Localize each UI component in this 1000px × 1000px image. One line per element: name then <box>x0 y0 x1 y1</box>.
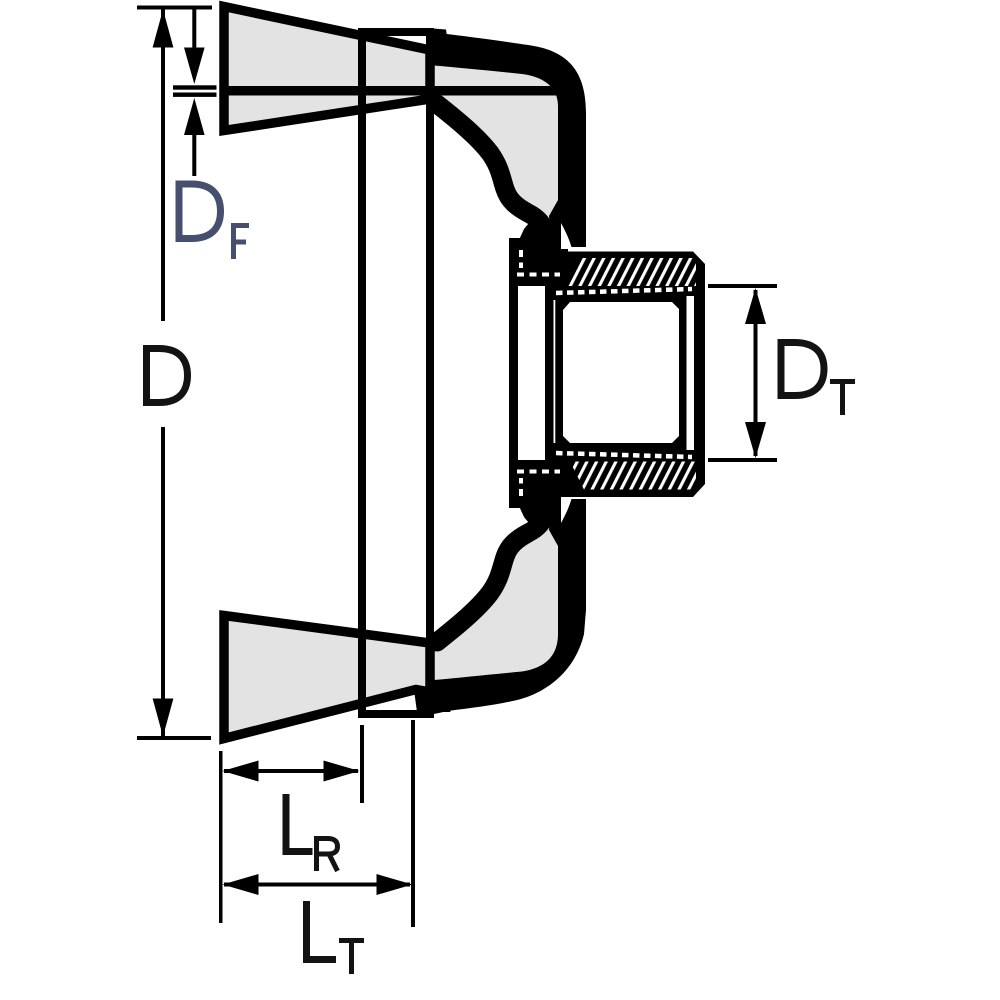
hidden-line dashes bottom block <box>519 478 523 496</box>
wire tuft trapezoid top <box>224 7 430 131</box>
hub back wall bar <box>509 238 518 508</box>
rim bottom edge <box>358 710 434 718</box>
rim cap step top <box>433 29 448 41</box>
cup top wall band <box>434 31 586 247</box>
cup body halves (mirror group: top half drawn, bottom is reflection about y=373) <box>426 44 564 258</box>
dimension D <box>137 6 212 741</box>
hidden-line dashes top block <box>519 250 523 268</box>
cup bottom-left corner piece <box>414 690 433 712</box>
rim cap step bottom <box>433 702 451 712</box>
cup bottom wall band (larger outer corner) <box>434 499 586 714</box>
label DF <box>179 184 221 239</box>
wire tuft trapezoid bottom <box>224 616 430 739</box>
hub bottom-left block <box>518 460 568 508</box>
neck funnel <box>519 215 559 240</box>
dimension DF <box>173 9 249 259</box>
white notch at top wall base <box>561 223 572 249</box>
bore <box>563 302 679 443</box>
label D <box>147 349 188 403</box>
cup inner S-curve wall <box>437 104 545 258</box>
top thread dash row <box>556 289 692 293</box>
top hatch <box>566 258 696 286</box>
rim right edge line <box>426 28 434 710</box>
dimension DT <box>708 284 855 462</box>
rim top edge <box>358 28 434 36</box>
dimension LT <box>223 720 416 974</box>
brush fold band (top only) <box>222 86 556 96</box>
nut body <box>545 252 705 498</box>
bottom thread dash row <box>556 453 692 457</box>
left face seam <box>554 300 556 443</box>
bottom hatch <box>570 462 696 490</box>
right relief strip <box>687 296 695 450</box>
cup interior gray fill <box>426 44 564 220</box>
label LT <box>307 901 337 960</box>
rim left edge line <box>358 28 366 718</box>
label LR <box>286 794 313 852</box>
label DT <box>781 343 824 396</box>
hub top-left block <box>518 238 568 286</box>
white notch at bottom wall base <box>561 497 572 523</box>
dimension LR <box>219 725 364 923</box>
